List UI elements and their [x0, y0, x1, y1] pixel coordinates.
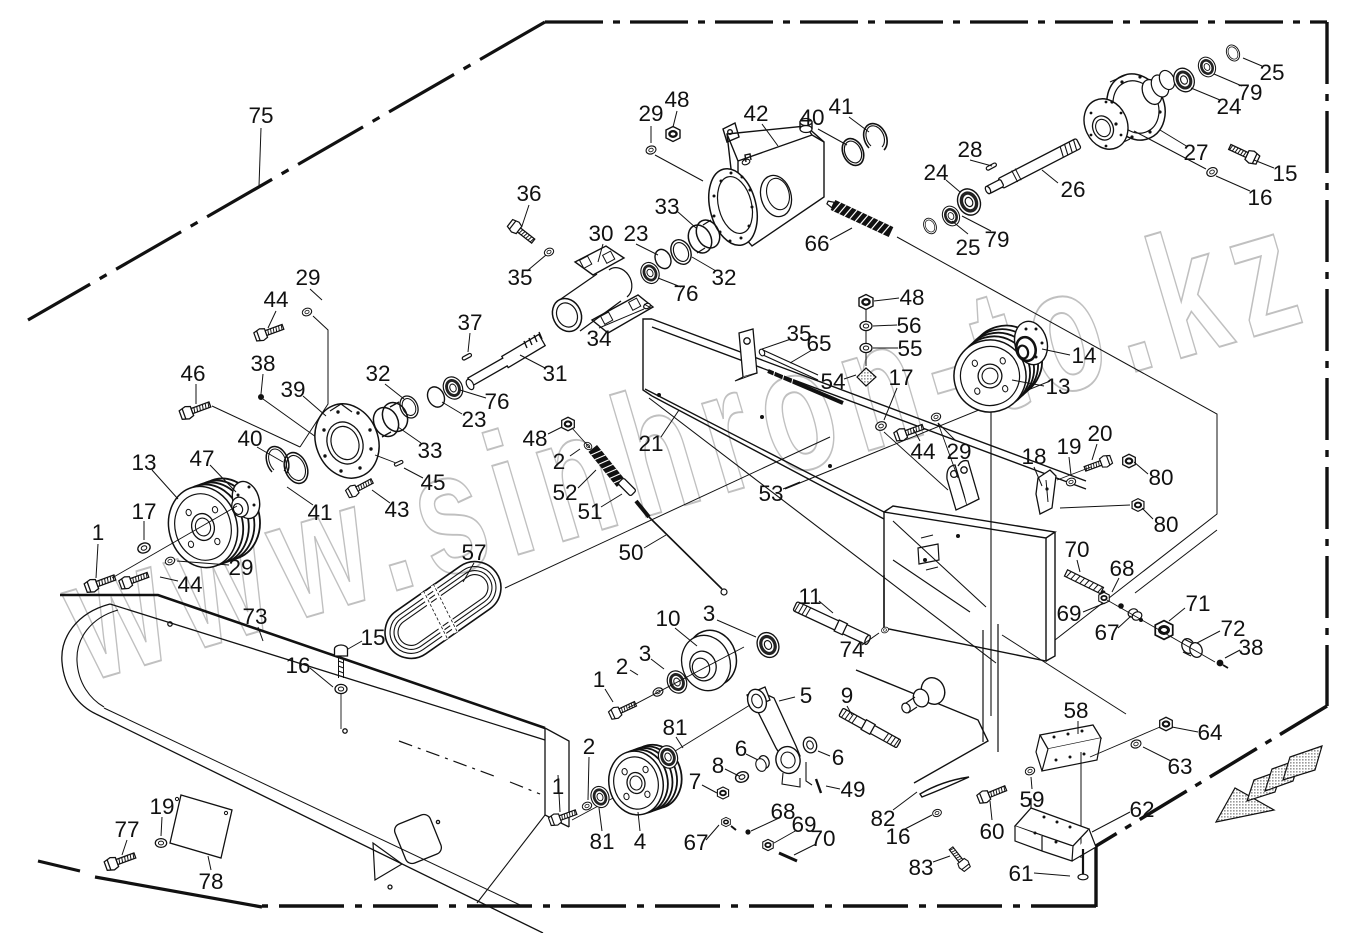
svg-text:16: 16 — [1247, 185, 1272, 210]
bolt 15 (right) — [1227, 141, 1261, 166]
border top edge — [545, 20, 1327, 23]
leader line to part 34 — [599, 309, 644, 328]
washer 19 (b) — [1065, 477, 1077, 487]
leader line to part 42 — [762, 124, 778, 146]
leader line to part 33 — [678, 212, 696, 228]
leader line to part 67 — [706, 825, 719, 840]
leader line to part 38 — [1225, 650, 1240, 658]
leader line to part 65 — [790, 350, 812, 363]
washer 74 — [881, 626, 890, 634]
leader line to part 57 — [463, 563, 474, 582]
svg-text:15: 15 — [360, 625, 385, 650]
axis line arm 5 — [654, 705, 750, 764]
svg-text:31: 31 — [542, 361, 567, 386]
leader line to part 69 — [774, 830, 797, 843]
leader line to part 55 — [873, 347, 898, 349]
svg-text:37: 37 — [457, 310, 482, 335]
washer 2 (c) — [581, 801, 593, 811]
bearing flange 39 — [304, 394, 390, 488]
hub 47 — [228, 478, 264, 522]
column: nut 48 washer 56 washer 55 pad 54 — [859, 295, 873, 310]
svg-text:16: 16 — [885, 824, 910, 849]
svg-text:11: 11 — [798, 584, 821, 609]
svg-text:61: 61 — [1008, 861, 1033, 886]
shaft 31 — [465, 332, 546, 391]
svg-text:29: 29 — [638, 101, 663, 126]
leader line to part 82 — [893, 792, 917, 810]
leader line to part 46 — [195, 384, 197, 404]
rod 70 (b) — [1064, 570, 1107, 596]
leader line to part 10 — [675, 628, 697, 646]
pin 70 (a) — [779, 853, 797, 861]
border bottom-left dash — [38, 861, 80, 871]
nut 71 — [1155, 621, 1173, 640]
leader line to part 28 — [970, 160, 992, 166]
svg-text:14: 14 — [1071, 343, 1096, 368]
spring 66 — [825, 197, 893, 237]
svg-text:43: 43 — [384, 497, 409, 522]
svg-text:2: 2 — [616, 654, 629, 679]
axis line pulley 4 — [572, 789, 630, 820]
ring 23 (a) — [652, 247, 674, 271]
svg-text:38: 38 — [1238, 635, 1263, 660]
svg-text:69: 69 — [1056, 601, 1081, 626]
bearing 81 (b) — [655, 743, 680, 771]
svg-text:77: 77 — [114, 817, 139, 842]
bracket 58 — [1036, 725, 1101, 771]
leader line to part 24 — [946, 180, 960, 192]
washer 25 (right) — [1224, 43, 1242, 63]
pulley 13 (right) — [962, 318, 1050, 406]
svg-text:78: 78 — [198, 869, 223, 894]
svg-text:20: 20 — [1087, 421, 1112, 446]
leader line to part 40 — [257, 447, 283, 462]
leader line to part 76 — [460, 390, 486, 398]
blade 82 — [920, 777, 969, 797]
leader line to part 1 — [605, 689, 613, 702]
svg-text:33: 33 — [654, 194, 679, 219]
pin 51 — [618, 478, 636, 496]
leader line to part 70 — [794, 844, 816, 855]
svg-text:48: 48 — [522, 426, 547, 451]
leader line to part 68 — [751, 818, 779, 831]
svg-text:23: 23 — [461, 407, 486, 432]
leader line to part 1 — [96, 544, 98, 578]
svg-text:79: 79 — [984, 227, 1009, 252]
shaft 26 — [983, 137, 1082, 196]
svg-text:34: 34 — [586, 326, 611, 351]
washer 17 (b) — [875, 420, 888, 431]
bolt 83 — [947, 845, 972, 873]
bearing 81 (a) — [588, 784, 612, 810]
spacer 6 (b) — [801, 735, 819, 754]
leader line to part 33 — [398, 427, 421, 443]
svg-text:45: 45 — [420, 470, 445, 495]
svg-text:39: 39 — [280, 377, 305, 402]
washer 68 (a) — [745, 829, 750, 834]
washer 29 (e) — [164, 556, 176, 566]
nut 48 (c) — [562, 417, 575, 431]
washer 16 (a) — [335, 684, 347, 693]
leader line to part 66 — [830, 228, 852, 240]
svg-text:2: 2 — [583, 734, 596, 759]
bolt 77 — [104, 849, 138, 872]
pin 45 — [394, 460, 403, 467]
leader line to part 1 — [558, 775, 560, 812]
leader line to part 69 — [1083, 603, 1105, 612]
washer 2 (a) — [583, 441, 594, 451]
pin 34 — [643, 302, 651, 309]
nut 48 (top) — [666, 127, 680, 142]
svg-text:27: 27 — [1183, 140, 1208, 165]
leader line to part 68 — [1112, 578, 1119, 592]
leader line to part 8 — [725, 769, 739, 776]
washer 17 — [136, 541, 151, 554]
leader line to part 23 — [442, 402, 462, 414]
leader line to part 19 — [161, 817, 162, 836]
bolt 20 — [1083, 454, 1113, 475]
svg-text:35: 35 — [507, 265, 532, 290]
leader line to part 58 — [1077, 721, 1079, 734]
hub 27 — [1076, 64, 1178, 156]
svg-text:23: 23 — [623, 221, 648, 246]
bolt 43 — [345, 476, 375, 499]
frame beam 21 — [643, 319, 1086, 519]
svg-text:51: 51 — [577, 499, 602, 524]
svg-text:70: 70 — [810, 826, 835, 851]
snap ring 41 (top) — [864, 124, 888, 150]
bolt 61 — [1082, 849, 1084, 874]
svg-text:7: 7 — [689, 769, 702, 794]
svg-text:59: 59 — [1019, 787, 1044, 812]
svg-text:46: 46 — [180, 361, 205, 386]
leader line to part 29 — [650, 126, 652, 143]
svg-text:25: 25 — [955, 235, 980, 260]
svg-text:60: 60 — [979, 819, 1004, 844]
leader line to part 49 — [826, 786, 840, 789]
nut 69 (a) — [763, 839, 774, 850]
pin 49 — [816, 779, 821, 793]
svg-text:70: 70 — [1064, 537, 1089, 562]
svg-text:19: 19 — [149, 794, 174, 819]
svg-text:76: 76 — [673, 281, 698, 306]
witness vertical pulley 13 — [990, 404, 992, 716]
hub 14 — [1010, 318, 1052, 369]
svg-text:44: 44 — [910, 439, 935, 464]
leader line to part 27 — [1160, 130, 1188, 147]
leader line to part 16 — [903, 815, 932, 830]
shaft 11 — [792, 601, 871, 647]
leader line to part 47 — [210, 465, 236, 492]
svg-text:1: 1 — [552, 774, 565, 799]
screw 38 (b) — [1217, 660, 1224, 667]
rod 50 — [636, 501, 649, 517]
bearing 3 (a) — [753, 629, 783, 661]
leader line to part 81 — [676, 737, 683, 748]
svg-text:73: 73 — [242, 604, 267, 629]
ring 40 (b) — [280, 449, 312, 487]
svg-text:65: 65 — [806, 331, 831, 356]
svg-text:41: 41 — [307, 500, 332, 525]
ball 69 (b) — [1099, 592, 1110, 603]
svg-text:5: 5 — [800, 683, 813, 708]
witness line belt-pulley — [505, 437, 830, 588]
svg-text:68: 68 — [1109, 556, 1134, 581]
leader line to part 48 — [874, 298, 899, 301]
svg-text:44: 44 — [177, 572, 202, 597]
leader line to part 79 — [962, 216, 991, 231]
washer 16 (right) — [1205, 166, 1218, 178]
leader line to part 32 — [385, 384, 404, 399]
svg-text:57: 57 — [461, 540, 486, 565]
pulley 13 (left) — [182, 471, 269, 568]
fitting 67 (b) — [1127, 607, 1139, 618]
svg-text:18: 18 — [1021, 444, 1046, 469]
sleeve 33 (b) — [369, 403, 403, 440]
leader line to part 2 — [588, 757, 589, 800]
leader line to part 5 — [779, 697, 795, 701]
spacer 6 (a) — [757, 754, 771, 770]
support bracket 35 (frame) — [735, 329, 757, 381]
svg-text:44: 44 — [263, 287, 288, 312]
svg-text:3: 3 — [703, 601, 716, 626]
svg-text:16: 16 — [285, 653, 310, 678]
leader line to part 29 — [310, 289, 322, 300]
washer 59 — [1024, 766, 1036, 776]
svg-text:19: 19 — [1056, 434, 1081, 459]
svg-text:76: 76 — [484, 389, 509, 414]
svg-text:74: 74 — [839, 637, 864, 662]
housing 42 — [701, 119, 824, 251]
svg-text:6: 6 — [832, 745, 845, 770]
svg-text:15: 15 — [1272, 161, 1297, 186]
leader line to part 79 — [1214, 74, 1242, 86]
svg-text:29: 29 — [946, 439, 971, 464]
svg-text:9: 9 — [841, 683, 854, 708]
washer 68 (b) — [1118, 603, 1124, 609]
nut 64 — [1160, 717, 1173, 731]
rod 65 lower — [768, 371, 843, 403]
axis line roller 10 — [628, 647, 744, 708]
leader line to part 3 — [651, 659, 664, 669]
frame box 53 — [649, 398, 1055, 783]
leader line to part 83 — [933, 856, 950, 862]
leader line to part 16 — [310, 668, 333, 687]
svg-text:48: 48 — [899, 285, 924, 310]
witness line housing-frame — [897, 237, 1217, 640]
bracket 18 — [1036, 470, 1056, 514]
svg-text:66: 66 — [804, 231, 829, 256]
small hole dots on frame — [760, 415, 960, 562]
washer 25 (left) — [921, 216, 939, 236]
svg-text:81: 81 — [589, 829, 614, 854]
border bottom edge — [262, 904, 1096, 907]
bolt 1 (a) — [84, 571, 118, 594]
svg-text:2: 2 — [553, 449, 566, 474]
leader line to part 74 — [862, 633, 879, 645]
washer 19 (a) — [155, 839, 166, 848]
leader line to part 75 — [259, 128, 261, 186]
lug ears on beam — [947, 461, 979, 510]
svg-text:83: 83 — [908, 855, 933, 880]
border bottom-right diagonal — [1096, 706, 1327, 846]
svg-text:8: 8 — [712, 753, 725, 778]
leader line to part 59 — [1031, 777, 1032, 789]
spring 52 — [588, 445, 625, 487]
leader line to part 2 — [570, 449, 580, 456]
leader line to part 35 — [527, 255, 546, 271]
leader line to part 37 — [468, 333, 470, 352]
svg-text:21: 21 — [638, 431, 663, 456]
svg-text:71: 71 — [1185, 591, 1210, 616]
plug 72 — [1180, 637, 1196, 655]
leader line to part 50 — [644, 535, 666, 548]
svg-text:67: 67 — [683, 830, 708, 855]
svg-text:48: 48 — [664, 87, 689, 112]
svg-text:17: 17 — [888, 365, 913, 390]
leader line to part 6 — [818, 751, 830, 756]
svg-text:80: 80 — [1153, 512, 1178, 537]
leader line to part 25 — [952, 221, 968, 234]
svg-text:81: 81 — [662, 715, 687, 740]
svg-text:30: 30 — [588, 221, 613, 246]
svg-text:38: 38 — [250, 351, 275, 376]
bolt 1 (c) — [608, 698, 638, 720]
leader line to part 78 — [208, 856, 211, 870]
svg-text:47: 47 — [189, 446, 214, 471]
svg-text:36: 36 — [516, 181, 541, 206]
svg-text:29: 29 — [295, 265, 320, 290]
washer 63 — [1130, 739, 1142, 750]
leader line to part 72 — [1197, 631, 1220, 643]
leader line to part 67 — [1118, 616, 1131, 628]
retaining ring 40 (top) — [838, 135, 868, 169]
leader line to part 30 — [598, 244, 603, 262]
svg-text:32: 32 — [711, 265, 736, 290]
leader line to part 20 — [1092, 444, 1097, 460]
leader line to part 4 — [638, 812, 640, 831]
nut 80 (a) — [1123, 454, 1136, 468]
leader line to part 70 — [1077, 560, 1080, 572]
leader line to part 77 — [122, 840, 127, 855]
leader line to part 31 — [520, 355, 545, 368]
set bolt 44 (top) — [253, 321, 285, 343]
border right-bottom vertical stub — [1094, 846, 1097, 907]
washer 8 — [734, 770, 750, 784]
leader line to part 29 — [177, 561, 229, 565]
bearing 24 (right) — [1170, 65, 1198, 95]
leader line to part 7 — [702, 785, 717, 793]
leader line to part 54 — [844, 375, 856, 379]
svg-text:33: 33 — [417, 438, 442, 463]
ring 23 (b) — [424, 384, 447, 410]
svg-text:40: 40 — [237, 426, 262, 451]
set screw 38 — [258, 394, 264, 400]
bolt 1 (d) — [548, 807, 578, 828]
seal 79 (left) — [939, 203, 963, 228]
leader line to part 73 — [258, 627, 263, 641]
leader line to part 40 — [818, 129, 847, 145]
svg-text:26: 26 — [1060, 177, 1085, 202]
leader line to part 36 — [522, 205, 529, 226]
svg-text:6: 6 — [735, 736, 748, 761]
nut 7 — [717, 787, 728, 799]
bolt 60 — [976, 783, 1008, 805]
leader line to part 43 — [372, 490, 390, 503]
leader line to part 2 — [630, 670, 638, 675]
svg-text:24: 24 — [1216, 94, 1241, 119]
svg-text:29: 29 — [228, 555, 253, 580]
leader line to part 61 — [1034, 873, 1070, 876]
bearing 24 (left) — [953, 185, 984, 219]
svg-text:53: 53 — [758, 481, 783, 506]
leader line to part 44 — [914, 430, 920, 441]
leader line to part 11 — [819, 601, 833, 613]
leader polyline 29-39 — [300, 316, 328, 447]
leader line to part 18 — [1034, 467, 1042, 486]
phantom line 75 top-left diagonal — [28, 22, 545, 320]
leader line to part 6 — [746, 754, 758, 760]
ring 32 (a) — [667, 236, 695, 267]
svg-text:13: 13 — [131, 450, 156, 475]
svg-text:50: 50 — [618, 540, 643, 565]
svg-text:56: 56 — [896, 313, 921, 338]
leader line to part 39 — [303, 396, 326, 416]
leader line to part 25 — [1243, 58, 1262, 66]
bolt 44 (c) — [893, 421, 925, 443]
leader line to part 44 — [160, 577, 178, 581]
svg-text:64: 64 — [1197, 720, 1222, 745]
leader line to part 26 — [1042, 170, 1058, 183]
nut 80 (b) — [1132, 499, 1144, 512]
leader line to part 24 — [1191, 88, 1220, 100]
svg-text:75: 75 — [248, 103, 273, 128]
svg-text:10: 10 — [655, 606, 680, 631]
direction arrow — [1216, 746, 1322, 822]
svg-text:4: 4 — [634, 829, 647, 854]
leader line to part 81 — [599, 808, 602, 831]
washer 16 (c) — [932, 808, 943, 818]
leader line to part 64 — [1172, 727, 1198, 732]
bearing 76 (b) — [440, 374, 467, 403]
leader line to part 32 — [692, 257, 716, 271]
bolt 44 (d) — [118, 569, 150, 591]
leader line to part 41 — [287, 487, 313, 505]
key 28 — [986, 162, 997, 170]
leader line to part 80 — [1142, 508, 1153, 519]
washer 29 (top) — [645, 145, 657, 156]
svg-text:58: 58 — [1063, 698, 1088, 723]
leader line to part 21 — [661, 410, 679, 437]
leader line to part 15 — [348, 641, 362, 649]
svg-text:52: 52 — [552, 480, 577, 505]
svg-text:1: 1 — [92, 520, 105, 545]
leader line to part 80 — [1134, 462, 1148, 474]
witness line 53 — [785, 381, 1050, 489]
body 73 — [60, 595, 569, 933]
bearing 3 (c) — [664, 668, 691, 697]
fitting 67 (a) — [722, 817, 731, 826]
snap ring 41 (b) — [266, 447, 289, 474]
shaft 9 — [838, 707, 901, 749]
svg-text:1: 1 — [593, 667, 606, 692]
bolt 15 (a) — [335, 645, 348, 678]
bearing 76 (a) — [637, 259, 662, 286]
svg-text:28: 28 — [957, 137, 982, 162]
svg-text:13: 13 — [1045, 374, 1070, 399]
svg-text:49: 49 — [840, 777, 865, 802]
leader line to part 16 — [1216, 176, 1250, 191]
